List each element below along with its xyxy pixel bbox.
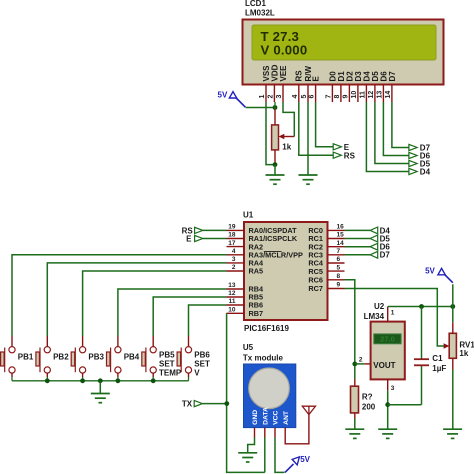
junction VOUT node [352,362,357,367]
svg-text:LM34: LM34 [364,312,385,321]
U1 left pin 17 stub [227,246,245,248]
svg-text:D7: D7 [380,251,391,260]
svg-text:13: 13 [228,282,236,289]
svg-text:8: 8 [337,273,341,280]
resistor R? 200 body [351,386,359,413]
svg-text:27.0: 27.0 [380,335,395,344]
wire LCD pin14 to D7 flag [392,102,409,148]
wire bus to ground [99,381,101,394]
svg-text:15: 15 [337,232,345,239]
svg-text:2: 2 [232,264,236,271]
wire PB3 to gnd bus [82,377,84,381]
svg-text:PB2: PB2 [53,352,69,361]
LCD pin 10 stub [357,85,359,102]
junction button bus [151,378,156,383]
ground (LCD R/W) [299,175,318,184]
capacitor C1 leads [421,307,423,359]
svg-text:E: E [344,143,350,152]
LCD pin 1 stub [265,85,267,102]
svg-text:7: 7 [325,95,332,99]
svg-text:RC7: RC7 [308,284,323,293]
svg-text:E: E [186,234,192,243]
U2 pin 1 stub [387,307,389,322]
U1 left pin 2 stub [227,270,245,272]
power 5V (Tx module VCC) [285,455,311,472]
wire C1 bottom to U2 pin3 [388,404,422,406]
U5 pin VCC stub [274,428,276,438]
potentiometer RV contrast 1k leads [274,109,276,125]
net flag E arrow (U1 side) [195,235,203,241]
svg-text:VEE: VEE [279,65,288,82]
push button PB5 [142,336,156,377]
LCD pin 5 stub [307,85,309,102]
svg-text:PB5: PB5 [159,351,175,360]
svg-text:9: 9 [337,282,341,289]
svg-text:1k: 1k [459,349,468,358]
junction U2 pin3 / C1 [385,402,390,407]
svg-text:1: 1 [259,95,266,99]
svg-text:U1: U1 [243,211,254,220]
U1 right pin 8 stub [328,279,345,281]
microcontroller U1 PIC16F1619 body [244,222,328,320]
junction TX [224,401,229,406]
LCD pin 7 stub [331,85,333,102]
wire U2 pin3 to ground [387,391,389,430]
power 5V (sensor rail) [425,267,453,283]
U1 right pin 7 stub [328,254,345,256]
svg-text:D7: D7 [388,71,397,82]
U5 pin GND stub [254,428,256,438]
svg-text:12: 12 [228,290,236,297]
wire VSS pin1 to ground [266,102,275,165]
wire PB4 to gnd bus [117,377,119,381]
ground (buttons) [91,394,110,403]
capacitor C1 plates [414,359,429,365]
wire U5 GND to ground [248,438,255,453]
U1 left pin 18 stub [227,238,245,240]
svg-text:RB7: RB7 [249,309,264,318]
svg-text:10: 10 [351,91,358,99]
svg-text:PB3: PB3 [88,352,104,361]
junction ground tap [98,378,103,383]
svg-text:PB1: PB1 [18,352,34,361]
junction RV1 top / 5V [450,304,455,309]
net flag D7 (LCD side) [409,144,417,150]
wire PB1 to gnd bus [11,377,13,381]
antenna wire [285,414,309,444]
wire E flag to U1 pin18 [203,238,227,240]
svg-text:6: 6 [309,95,316,99]
wire R/W pin5 to ground [307,102,309,175]
wire RV1 to ground [452,370,454,430]
net flag D6 (LCD side) [409,152,417,158]
svg-text:5: 5 [337,264,341,271]
svg-text:LM032L: LM032L [245,9,275,18]
svg-text:11: 11 [359,91,366,99]
svg-text:RS: RS [295,70,304,82]
ground (U2) [378,429,397,438]
wire U1 RB7 to TX / Tx module DATA [227,313,265,472]
antenna symbol [302,406,315,414]
svg-text:D4: D4 [420,167,431,176]
svg-text:4: 4 [232,248,236,255]
wire PB6 to gnd bus [188,377,190,381]
LCD pin 12 stub [374,85,376,102]
potentiometer body 1k [272,125,279,150]
junction button bus [80,378,85,383]
svg-text:6: 6 [337,256,341,263]
wire U1 to button PB1 [12,255,227,336]
U1 right pin 9 stub [328,288,345,290]
wire U1 RC6 to LM34 VOUT node [345,280,355,379]
svg-text:2: 2 [359,356,363,363]
net flag RS (LCD side) [333,152,341,158]
svg-text:PIC16F1619: PIC16F1619 [244,324,289,333]
svg-text:2: 2 [267,95,274,99]
svg-text:Tx module: Tx module [243,354,284,363]
svg-text:5: 5 [301,95,308,99]
U1 left pin 10 stub [227,312,245,314]
junction button bus [116,378,121,383]
wire LCD pin11 to D4 flag [366,102,409,172]
wire U1 to D7 flag [345,254,371,256]
svg-text:12: 12 [368,91,375,99]
power 5V (LCD supply) [218,91,246,108]
U1 left pin 11 stub [227,304,245,306]
U1 left pin 13 stub [227,288,245,290]
svg-text:DATA: DATA [262,407,269,425]
svg-text:5V: 5V [300,455,310,464]
svg-text:5V: 5V [218,91,228,100]
net flag E (LCD side) [333,144,341,150]
net flag D6 (U1 side) [370,243,378,250]
wire U1 to D5 flag [345,238,371,240]
LCD pin 6 stub [315,85,317,102]
svg-text:17: 17 [228,240,236,247]
svg-text:3: 3 [391,385,395,392]
LCD pin 11 stub [365,85,367,102]
push button PB4 [107,336,122,377]
svg-text:PB6: PB6 [194,351,210,360]
wire TX flag to RB7 net [202,403,226,405]
svg-text:3: 3 [232,256,236,263]
junction button bus [45,378,50,383]
U1 right pin 16 stub [328,229,345,231]
svg-text:U5: U5 [243,343,254,352]
svg-text:9: 9 [342,95,349,99]
push button PB2 [36,336,51,377]
LCD LM032L body [243,20,444,85]
svg-text:1µF: 1µF [432,364,446,373]
wire 5V to rail [452,284,454,306]
svg-text:200: 200 [362,402,376,411]
LCD pin 8 stub [340,85,342,102]
wire PB2 to gnd bus [46,377,48,381]
push button PB6 [177,336,191,377]
svg-text:5V: 5V [425,267,435,276]
wire RS flag to U1 pin19 [203,229,227,231]
wire U1 to D6 flag [345,246,371,248]
svg-text:RS: RS [344,151,356,160]
LCD pin 13 stub [382,85,384,102]
svg-text:ANT: ANT [283,410,290,425]
junction pot bottom/VSS [273,162,278,167]
U5 pin DATA stub [264,428,266,438]
junction C1 top [419,304,424,309]
wire LCD E pin6 to E flag [316,102,334,147]
svg-text:RC5: RC5 [308,267,323,276]
svg-text:SET: SET [194,360,210,369]
wire U1 RC7 to RV1 wiper [345,289,445,347]
U2 pin 3 stub [387,379,389,390]
ground (R?) [345,429,364,438]
ground (Tx module) [238,453,257,462]
wire VOUT node to LM34 pin2 [355,363,364,365]
wire U1 to button PB2 [47,263,226,336]
svg-text:R?: R? [362,393,373,402]
wire PB5 to gnd bus [152,377,154,381]
svg-text:14: 14 [337,240,345,247]
svg-text:U2: U2 [374,302,385,311]
U1 right pin 14 stub [328,246,345,248]
net flag D5 (U1 side) [370,235,378,242]
svg-text:VOUT: VOUT [373,361,395,370]
LCD pin 2 stub [273,85,275,102]
svg-text:V 0.000: V 0.000 [261,42,308,57]
LCD pin 3 stub [282,85,284,102]
LCD green screen [252,25,436,60]
ground (LCD VSS / pot) [266,175,285,184]
wire U1 to button PB3 [83,271,227,336]
svg-text:4: 4 [292,95,299,99]
resistor R? 200 leads [354,379,356,386]
svg-text:C1: C1 [432,354,443,363]
wire button ground bus [12,380,189,382]
svg-text:3: 3 [276,95,283,99]
U1 right pin 5 stub [328,270,345,272]
net flag D5 (LCD side) [409,160,417,166]
U1 left pin 4 stub [227,254,245,256]
LCD pin 14 stub [391,85,393,102]
U1 left pin 19 stub [227,229,245,231]
wire U5 VCC to 5V [275,438,285,473]
svg-text:14: 14 [385,91,392,99]
wire U1 to button PB4 [118,289,227,336]
wire LCD pin12 to D5 flag [375,102,409,164]
svg-text:GND: GND [252,410,259,425]
wire LCD pin13 to D6 flag [383,102,409,156]
svg-text:10: 10 [228,307,236,314]
RV1 leads [452,307,454,323]
svg-text:8: 8 [334,95,341,99]
svg-text:TX: TX [182,399,193,408]
svg-text:RA5: RA5 [249,267,264,276]
svg-text:11: 11 [229,298,236,305]
net flag TX arrow [194,401,202,407]
push button PB1 [1,336,16,377]
U1 right pin 15 stub [328,238,345,240]
wire U1 to button PB5 [153,297,226,336]
U1 right pin 6 stub [328,262,345,264]
svg-text:19: 19 [228,224,236,231]
svg-text:TEMP: TEMP [159,369,182,378]
wire U1 to D4 flag [345,229,371,231]
svg-text:LCD1: LCD1 [245,0,266,8]
wire LCD RS pin4 to RS flag [299,102,333,155]
svg-text:13: 13 [376,91,383,99]
net flag D4 (LCD side) [409,168,417,174]
net flag D7 (U1 side) [370,251,378,258]
svg-text:1: 1 [391,309,395,316]
wire U1 to button PB6 [189,305,227,336]
wire U5 DATA down [264,438,266,473]
svg-text:E: E [312,76,321,82]
potentiometer wiper arrow [279,134,285,139]
LCD pin 9 stub [348,85,350,102]
svg-text:VCC: VCC [273,410,280,424]
svg-text:16: 16 [337,224,345,231]
svg-text:PB4: PB4 [124,352,140,361]
push button PB3 [71,336,86,377]
net flag D4 (U1 side) [370,227,378,234]
net flag RS arrow (U1 side) [195,227,203,233]
Tx module U5 body [244,364,296,428]
wire R? to ground [354,419,356,430]
svg-text:RC6: RC6 [308,276,323,285]
U2 pin 2 stub [364,363,370,365]
svg-text:V: V [194,369,200,378]
LM34 display [374,334,401,344]
Tx module circle [249,368,290,409]
svg-text:7: 7 [337,248,341,255]
svg-text:18: 18 [228,232,236,239]
U5 pin ANT stub [284,428,286,438]
svg-text:SET: SET [159,360,175,369]
U1 left pin 12 stub [227,296,245,298]
wire 5V to LCD pin2 VDD [246,107,275,109]
svg-text:1k: 1k [282,142,291,151]
wire VEE pin3 to pot wiper [283,102,294,137]
potentiometer RV1 1k body [449,333,456,358]
temperature sensor U2 LM34 body [371,322,405,380]
RV1 wiper arrow [444,343,450,348]
U1 left pin 3 stub [227,262,245,264]
wire 5V rail (U2 pin1 - C1 - RV1) [388,306,453,308]
junction VDD/pot top [273,105,278,110]
ground (RV1) [443,429,462,438]
LCD pin 4 stub [298,85,300,102]
wire pot bottom to ground [274,165,276,175]
